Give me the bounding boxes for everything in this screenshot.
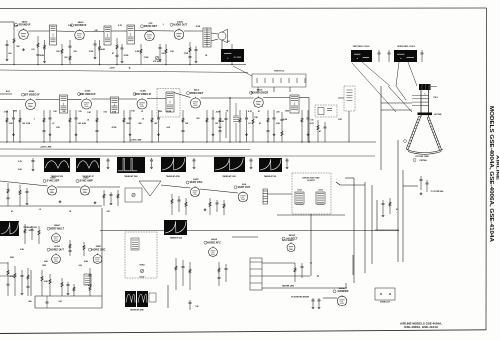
component R216 — [245, 110, 251, 142]
ground G4 — [94, 56, 97, 59]
border right rule — [485, 8, 488, 330]
deflection yoke plug box — [252, 71, 306, 88]
svg-text:.047: .047 — [106, 210, 110, 213]
svg-text:120: 120 — [31, 49, 34, 51]
svg-text:.1: .1 — [162, 24, 164, 26]
interlock label — [380, 302, 391, 304]
wire v12-v13 — [200, 189, 239, 193]
wire ts-socket wire — [268, 193, 293, 195]
photo row left lbl — [18, 160, 22, 171]
component R219 — [301, 110, 303, 142]
component C32 — [109, 192, 112, 202]
svg-text:.1: .1 — [33, 119, 35, 121]
component R2 — [36, 36, 39, 65]
photo caption W9 — [130, 309, 144, 312]
svg-text:2ND VIDEO IF: 2ND VIDEO IF — [79, 93, 96, 96]
IF transformer T7 — [166, 92, 174, 112]
tube V6 2ND VIDEO IF — [78, 91, 97, 109]
svg-text:HORIZ OUT: HORIZ OUT — [50, 248, 64, 251]
row1 extra vals — [16, 46, 238, 59]
wire t6-v7 — [119, 98, 138, 100]
component R212 — [181, 110, 189, 142]
component C51 — [311, 298, 314, 306]
component R40 — [24, 224, 26, 244]
hv shield label — [282, 240, 295, 242]
svg-text:270K: 270K — [4, 112, 9, 114]
margin title MODELS — [488, 106, 494, 242]
wire takeoff drop — [348, 111, 350, 142]
waveform photo waveform photo W2 — [76, 158, 100, 172]
ground G40 — [420, 192, 423, 195]
component C46 — [181, 260, 184, 286]
B+ 140V line — [0, 141, 376, 143]
wire vline x311 — [310, 214, 312, 276]
component R46 — [61, 278, 63, 296]
yoke lead mid — [396, 62, 399, 86]
component C48 — [188, 300, 191, 310]
svg-text:.01: .01 — [141, 111, 144, 113]
wire plug stub3 — [289, 87, 291, 92]
svg-text:10K: 10K — [254, 117, 258, 119]
component R45 — [49, 274, 51, 296]
wire discr drop — [308, 98, 310, 143]
waveform photo waveform photo W6 — [259, 158, 282, 172]
svg-text:1500: 1500 — [285, 111, 289, 113]
component R30 — [6, 183, 9, 206]
component R24 — [48, 110, 54, 142]
waveform photo waveform photo W9b — [137, 291, 148, 307]
svg-text:.01: .01 — [39, 209, 42, 211]
svg-text:560: 560 — [16, 46, 20, 48]
svg-text:68K: 68K — [44, 261, 48, 263]
wire row2 grid in — [0, 99, 26, 101]
c48 lbl — [195, 306, 199, 308]
svg-text:TAKEN AT 470K: TAKEN AT 470K — [166, 175, 180, 178]
component R35 — [185, 198, 187, 215]
component R214 — [211, 110, 218, 142]
speaker LS1 — [218, 29, 228, 43]
svg-text:47: 47 — [112, 52, 114, 55]
wire vline x31 — [30, 270, 32, 296]
row3 vals — [11, 209, 110, 213]
svg-text:560: 560 — [78, 123, 81, 125]
wire hline y215 — [277, 214, 345, 216]
tube V8 VIDEO DET — [187, 89, 204, 108]
wire v1 plate — [28, 30, 49, 32]
wire hline y308 — [35, 307, 102, 309]
svg-text:470K: 470K — [124, 54, 129, 57]
svg-text:1500: 1500 — [126, 123, 130, 125]
wire spk drop — [221, 40, 223, 49]
component C5 — [158, 44, 161, 58]
svg-text:100: 100 — [161, 53, 164, 55]
svg-text:6.8K: 6.8K — [82, 123, 87, 125]
svg-text:GSE-4006A, GSE-4104A: GSE-4006A, GSE-4104A — [404, 325, 439, 329]
svg-text:AUDIO OUT: AUDIO OUT — [173, 24, 188, 27]
svg-text:270K: 270K — [184, 53, 189, 55]
svg-text:33K: 33K — [56, 127, 60, 129]
component R61 — [252, 112, 254, 142]
svg-text:AIRLINE: AIRLINE — [496, 155, 500, 181]
svg-text:TAKEN AT 220: TAKEN AT 220 — [170, 237, 182, 240]
component Cy2 — [387, 50, 390, 62]
component C62 — [323, 122, 326, 142]
svg-text:COILS: COILS — [297, 190, 302, 192]
interlock box — [375, 288, 395, 300]
waveform photo waveform photo W9a — [125, 291, 136, 307]
component R36 — [209, 198, 211, 215]
svg-text:SOUND IF: SOUND IF — [19, 24, 31, 27]
component Cw108 — [106, 158, 109, 166]
wire plug stub2 — [273, 87, 275, 92]
tube V15 HORIZ OUT — [47, 246, 64, 263]
IF section divider — [0, 155, 375, 157]
svg-text:TO OUTER DAG: TO OUTER DAG — [431, 190, 445, 193]
rc lbl — [396, 208, 398, 211]
component R22 — [19, 110, 25, 142]
svg-text:47: 47 — [259, 122, 262, 125]
component R62 — [317, 120, 319, 142]
svg-text:2.2M: 2.2M — [14, 25, 19, 27]
svg-text:1500: 1500 — [158, 111, 162, 113]
potentiometer VOLUME — [153, 56, 162, 63]
tube V18 HV RECT — [282, 235, 298, 251]
ground G2158.5 — [157, 133, 160, 136]
ground Gw287 — [286, 166, 289, 169]
component Cw251 — [249, 158, 252, 166]
svg-text:6.8K: 6.8K — [84, 261, 89, 263]
heater label — [282, 285, 295, 288]
svg-text:HORIZ OSC: HORIZ OSC — [92, 248, 106, 251]
photo caption W5 — [222, 175, 236, 178]
CRT funnel bottom — [407, 150, 444, 155]
svg-text:560: 560 — [64, 57, 67, 59]
waveform photo waveform photo W7 — [0, 221, 19, 236]
component R31 — [19, 185, 21, 206]
svg-text:PIN 10: PIN 10 — [434, 97, 439, 99]
wire takeoff tap — [338, 97, 344, 99]
svg-text:6.8K: 6.8K — [18, 169, 22, 171]
tube V16 HORIZ OSC — [89, 246, 106, 263]
horiz coil dashed box — [125, 232, 157, 278]
ground G7 — [195, 60, 198, 63]
component C50 — [300, 263, 303, 278]
svg-text:4.7K: 4.7K — [118, 24, 123, 27]
wire row1 bus — [0, 64, 246, 66]
component C42 — [30, 226, 33, 240]
svg-text:33K: 33K — [338, 119, 342, 121]
video det shield dashed box — [157, 89, 180, 118]
photo caption W6 — [264, 175, 276, 178]
component R21 — [12, 110, 15, 142]
ground G30a — [26, 202, 29, 205]
ground G70 — [21, 292, 24, 295]
tube V19 DAMPER — [333, 287, 349, 306]
power terminal box — [250, 258, 262, 290]
component R43 — [83, 242, 85, 256]
component R26 — [74, 110, 81, 142]
component Cw33 — [31, 158, 34, 168]
component R7 — [115, 38, 118, 65]
wire v8-v9 video line — [201, 97, 254, 99]
funnel circled ref — [404, 140, 407, 143]
component C3 — [93, 40, 96, 56]
wire pw3 — [262, 287, 345, 289]
component R72 — [41, 270, 49, 296]
component C47 — [224, 264, 227, 282]
bl vals — [10, 257, 88, 303]
svg-text:.01: .01 — [52, 123, 55, 125]
component Cy3 — [420, 50, 423, 62]
component R5 — [68, 40, 71, 65]
yoke lead left — [362, 62, 390, 86]
component R44 — [26, 268, 29, 296]
component C45 — [66, 282, 69, 292]
IF transformer T1 — [50, 25, 57, 45]
wire crt wire a — [381, 109, 412, 111]
waveform photo waveform photo W1 — [44, 158, 70, 172]
IF transformer T3 — [127, 25, 135, 44]
svg-text:4.7K: 4.7K — [310, 122, 315, 125]
border top rule — [0, 7, 487, 10]
wire v9 plate — [263, 97, 290, 99]
wire hline y230 — [100, 230, 399, 232]
svg-text:DAMPER: DAMPER — [338, 290, 349, 293]
waveform photo yoke winding photo left — [351, 50, 372, 62]
svg-text:1ST VIDEO IF: 1ST VIDEO IF — [24, 93, 40, 96]
svg-text:+140V LINE: +140V LINE — [130, 138, 142, 141]
svg-text:SOUND IF: SOUND IF — [75, 24, 87, 27]
wire row1 grid drop — [13, 22, 15, 30]
svg-text:AGC: AGC — [6, 90, 11, 93]
component R6 — [98, 40, 100, 65]
photo caption W3 — [124, 175, 137, 178]
photo caption W1 — [51, 175, 63, 178]
svg-text:YOKE PLUG: YOKE PLUG — [274, 71, 285, 73]
wire w9 lead — [167, 285, 169, 308]
photo caption W7 — [23, 226, 37, 232]
wire crt gnd wire — [403, 185, 418, 187]
waveform photo waveform photo W4 — [161, 157, 186, 172]
svg-text:270K: 270K — [112, 112, 117, 114]
IF transformer T6 — [111, 97, 119, 113]
component C4 — [120, 44, 123, 60]
junction jd1 — [317, 275, 318, 276]
svg-text:4.7K: 4.7K — [248, 110, 253, 113]
label 140v line — [130, 138, 142, 141]
component C6 — [194, 46, 197, 60]
row4 vals — [20, 249, 93, 287]
svg-text:2.2M: 2.2M — [68, 25, 73, 27]
yoke winding horiz half — [316, 190, 325, 205]
svg-text:21FP4A: 21FP4A — [419, 159, 427, 162]
vert integrator — [139, 181, 161, 196]
ground Gw108 — [107, 166, 110, 169]
wire rc1 — [375, 229, 399, 231]
component C33 — [177, 196, 180, 212]
ground G2213 — [212, 133, 215, 136]
wire vline x346 — [345, 283, 347, 288]
svg-text:1500: 1500 — [42, 265, 46, 267]
ground G31 — [59, 200, 62, 203]
wire v11 out — [90, 186, 120, 188]
bl wire a — [0, 263, 15, 276]
svg-text:1K: 1K — [205, 55, 208, 57]
wire pw1 — [262, 262, 295, 264]
flyback diag long — [352, 63, 396, 112]
wire corner r2 — [340, 184, 365, 186]
component C31 — [25, 188, 28, 202]
margin title AIRLINE — [496, 155, 500, 181]
svg-text:SOCKET: SOCKET — [307, 180, 315, 182]
svg-text:DEFLECTION YOKE: DEFLECTION YOKE — [302, 178, 320, 180]
wire v4 plate — [184, 30, 203, 32]
component R3 — [43, 40, 45, 60]
ground G213.5 — [12, 133, 15, 136]
svg-text:RATIO DET: RATIO DET — [144, 25, 158, 28]
svg-text:VERT MULT: VERT MULT — [50, 227, 65, 230]
wire crt wire b — [381, 102, 412, 104]
flyback lead 1 — [388, 86, 412, 112]
row2 extra vals — [26, 122, 262, 129]
plug lead wire — [233, 66, 252, 76]
det peaking coil — [233, 103, 239, 142]
wire v6 plate — [92, 98, 111, 100]
component R210 — [151, 110, 158, 142]
component R34 — [171, 194, 173, 215]
IF transformer T2 — [104, 26, 111, 45]
ground G32 — [94, 201, 97, 204]
wire corner r1 — [345, 177, 354, 179]
svg-text:560: 560 — [218, 127, 222, 129]
component C1 — [5, 40, 8, 58]
svg-text:100: 100 — [310, 120, 313, 122]
svg-text:+250V LINE: +250V LINE — [40, 147, 52, 149]
svg-text:560: 560 — [138, 123, 142, 125]
svg-text:.005: .005 — [78, 265, 82, 267]
ground G3 — [22, 48, 25, 51]
label 250v a — [109, 67, 132, 69]
ground Gw33 — [32, 168, 35, 171]
component R4 — [61, 44, 63, 65]
waveform photo waveform photo W3 — [117, 157, 145, 173]
wire pw2 — [262, 275, 310, 277]
wire t5-v6 — [68, 99, 82, 101]
IF transformer T8 — [290, 95, 299, 113]
wire v5 plate — [36, 99, 60, 101]
horiz drive cap — [46, 296, 49, 308]
svg-text:270K: 270K — [89, 51, 94, 53]
svg-text:560: 560 — [28, 301, 32, 303]
component R213 — [206, 110, 208, 142]
photo caption W2 — [82, 175, 93, 178]
svg-text:120: 120 — [78, 111, 81, 113]
wire hline y237 — [232, 236, 258, 238]
wire t4-spk bot — [211, 39, 218, 41]
CRT neck right — [428, 90, 430, 117]
svg-text:B+: B+ — [129, 67, 132, 69]
trap coil — [318, 108, 332, 115]
wire t8 out — [299, 97, 309, 99]
scatter value labels — [4, 24, 314, 122]
photo caption W8 — [170, 237, 182, 240]
agc label — [6, 90, 11, 93]
svg-text:47: 47 — [396, 208, 398, 211]
component C40 — [419, 176, 422, 190]
component C60 — [224, 112, 227, 138]
potentiometer HEIGHT — [132, 193, 135, 196]
svg-text:68K: 68K — [10, 257, 14, 259]
height box — [125, 188, 142, 202]
component Cw194 — [192, 158, 195, 166]
audio output transformer T4 — [203, 28, 211, 47]
waveform photo waveform photo W8 — [164, 220, 187, 235]
component R60 — [218, 110, 221, 142]
potentiometer HORIZ HOLD — [140, 269, 143, 272]
svg-text:TAKEN AT 2.2M: TAKEN AT 2.2M — [23, 226, 37, 229]
component R27 — [95, 110, 98, 142]
svg-text:TAKEN AT 1500: TAKEN AT 1500 — [124, 175, 137, 178]
svg-text:10K: 10K — [170, 51, 174, 53]
deflection socket dashed box — [292, 173, 331, 214]
yoke winding vert half — [295, 190, 304, 205]
wire vline x377 — [376, 200, 378, 230]
svg-text:SYNC SEP: SYNC SEP — [47, 180, 60, 183]
svg-text:VOLUME: VOLUME — [153, 61, 162, 63]
component R215 — [239, 110, 241, 142]
svg-text:4.7K: 4.7K — [18, 160, 22, 163]
svg-text:3RD VIDEO IF: 3RD VIDEO IF — [135, 93, 152, 96]
svg-text:10K: 10K — [185, 123, 189, 125]
svg-text:47: 47 — [319, 130, 322, 133]
label 250v line — [40, 147, 52, 149]
tube V12 VERT OSC — [186, 179, 203, 197]
component R42 — [68, 240, 71, 256]
svg-text:SYNC AMP: SYNC AMP — [79, 180, 92, 183]
component R50 — [217, 262, 220, 286]
wire plug stub1 — [257, 87, 259, 92]
svg-text:ION TRAP: ION TRAP — [434, 113, 443, 116]
ground G2274 — [273, 133, 276, 136]
svg-text:.047: .047 — [94, 29, 98, 32]
ground Gw194 — [193, 166, 196, 169]
photo caption W4 — [166, 175, 180, 178]
svg-text:10K: 10K — [220, 121, 224, 123]
svg-text:HOLD: HOLD — [140, 277, 146, 279]
component R25 — [69, 110, 71, 142]
crt net label — [431, 190, 445, 193]
wire t4-spk top — [211, 33, 218, 34]
svg-text:560: 560 — [56, 51, 59, 53]
svg-text:2.2M: 2.2M — [283, 119, 288, 121]
svg-text:10K: 10K — [87, 112, 91, 114]
svg-text:+250V: +250V — [109, 67, 115, 69]
yoke lead right — [408, 62, 417, 86]
ground G1 — [6, 58, 9, 61]
component Cw151.5 — [150, 158, 153, 166]
component R48 — [175, 258, 177, 290]
wire t3-v4 — [135, 30, 175, 33]
sound takeoff dashed box — [344, 86, 355, 111]
svg-text:.047: .047 — [154, 122, 158, 125]
svg-text:6.8K: 6.8K — [44, 281, 49, 283]
CRT funnel right side — [427, 117, 441, 150]
wire vline x403 — [402, 170, 404, 262]
component R217 — [266, 110, 269, 142]
wire v10-v11 — [57, 186, 81, 188]
component C41 — [425, 180, 428, 192]
component R8 — [140, 44, 142, 65]
